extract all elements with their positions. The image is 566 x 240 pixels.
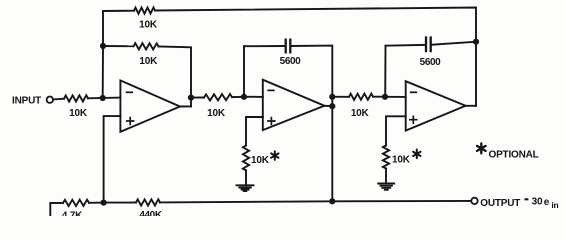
resistor 10K (U1 output to U2) bbox=[204, 94, 232, 101]
U1 minus marker bbox=[127, 91, 133, 93]
wire: capacitor C1 right lead down to U2 output and bottom rail bbox=[291, 46, 332, 202]
wire: U2 inverting node up to capacitor bbox=[243, 46, 245, 97]
junction: U1 output node bbox=[188, 95, 194, 101]
wire: U1 output row left stub bbox=[191, 97, 204, 99]
wire: bottom divider left leg (to supply, clipped) bbox=[50, 203, 63, 216]
wire: U3 inverting node up to capacitor bbox=[384, 46, 386, 97]
wire: node to U2 inverting input bbox=[244, 96, 263, 98]
svg-text:440K: 440K bbox=[139, 210, 162, 216]
capacitor C2 5600 plates bbox=[426, 38, 431, 52]
op-amp U2 bbox=[263, 80, 325, 130]
wire: top feedback rail left segment bbox=[103, 11, 134, 46]
wire: U1 feedback left stub bbox=[103, 45, 134, 47]
svg-text:e: e bbox=[544, 197, 550, 208]
junction: U2 output / tip bbox=[329, 103, 335, 109]
wire: U3 plus input to optional resistor bbox=[386, 116, 406, 145]
junction: node A summing input bbox=[100, 95, 106, 101]
wire: output junction to output terminal bbox=[332, 200, 471, 202]
wire: 4.7K to divider tap bbox=[89, 202, 104, 204]
junction: divider tap on bottom rail bbox=[101, 200, 107, 206]
junction: C2 right / feedback vertical bbox=[473, 39, 479, 45]
resistor 10K (U1 feedback) bbox=[134, 43, 159, 49]
wire: input resistor to U1 inverting input bbox=[88, 97, 120, 100]
svg-text:10K: 10K bbox=[251, 155, 270, 166]
label: *OPTIONAL note bbox=[477, 143, 486, 153]
wire: U2 plus input to optional resistor bbox=[246, 117, 263, 145]
wire: node A vertical (summing node to rails) bbox=[102, 46, 104, 98]
ground (U2 plus) bbox=[237, 185, 254, 191]
svg-text:INPUT: INPUT bbox=[12, 96, 41, 107]
U2 plus marker bbox=[268, 118, 275, 125]
wire: U3 output to feedback vertical bbox=[466, 105, 476, 107]
svg-text:10K: 10K bbox=[139, 20, 158, 31]
wire: capacitor C1 left lead bbox=[244, 45, 285, 47]
U3 minus marker bbox=[411, 91, 417, 93]
junction: U2 output / row2 bbox=[329, 94, 335, 100]
wire: capacitor C2 left lead bbox=[386, 44, 425, 47]
resistor 10K* (U2 plus to ground) bbox=[243, 145, 249, 170]
capacitor C1 5600 plates bbox=[286, 40, 291, 53]
svg-text:30: 30 bbox=[532, 196, 543, 207]
input terminal circle bbox=[47, 97, 53, 103]
wire: U1 plus input to bottom divider tap bbox=[104, 116, 121, 203]
junction: U2 inverting node bbox=[241, 94, 247, 100]
svg-text:OPTIONAL: OPTIONAL bbox=[489, 149, 539, 160]
svg-text:10K: 10K bbox=[351, 108, 370, 119]
svg-text:4.7K: 4.7K bbox=[62, 211, 83, 216]
svg-text:in: in bbox=[551, 200, 558, 210]
wire: divider tap to 440K bbox=[104, 202, 136, 204]
resistor 10K (U2 output to U3) bbox=[349, 94, 373, 100]
wire: resistor to ground bbox=[385, 169, 387, 184]
wire: node to U3 inverting input bbox=[385, 96, 406, 98]
wire: U2 output to vertical bbox=[324, 105, 332, 107]
wire: U1 output to junction bbox=[180, 105, 191, 107]
wire: capacitor C2 right lead to U3 output vertical bbox=[432, 42, 476, 45]
output terminal circle bbox=[471, 198, 477, 204]
junction: node A / U1 feedback tap bbox=[100, 43, 106, 49]
op-amp U1 bbox=[120, 80, 180, 131]
svg-text:5600: 5600 bbox=[280, 56, 301, 67]
wire: U2 output row stub bbox=[332, 96, 349, 98]
svg-text:10K: 10K bbox=[69, 108, 88, 119]
svg-text:5600: 5600 bbox=[420, 57, 441, 68]
wire: resistor to U2 inverting node bbox=[232, 96, 244, 98]
resistor 10K (input) bbox=[64, 95, 88, 101]
wire: 440K to output junction bbox=[160, 201, 332, 202]
U1 plus marker bbox=[127, 118, 134, 125]
ground (U3 plus) bbox=[378, 184, 394, 190]
wire: resistor to U3 inverting node bbox=[373, 96, 385, 98]
wire: U1 feedback right segment down to U1 output bbox=[159, 47, 192, 107]
junction: U3 inverting node bbox=[382, 94, 388, 100]
op-amp U3 bbox=[406, 81, 466, 130]
resistor 440K bbox=[136, 199, 160, 205]
U2 minus marker bbox=[268, 89, 274, 91]
U3 plus marker bbox=[410, 116, 417, 123]
junction: U2 output on bottom rail bbox=[329, 198, 335, 204]
resistor 4.7K bbox=[63, 200, 89, 206]
wire: resistor to ground bbox=[245, 170, 247, 185]
svg-text:10K: 10K bbox=[139, 56, 158, 67]
wire: input terminal to resistor bbox=[53, 98, 64, 101]
resistor 10K* (U3 plus to ground) bbox=[383, 145, 389, 168]
resistor 10K (overall feedback, top) bbox=[134, 7, 155, 13]
svg-text:OUTPUT: OUTPUT bbox=[480, 198, 520, 209]
svg-text:10K: 10K bbox=[207, 108, 226, 119]
wire: top feedback rail right segment down to op-amp U3 output bbox=[155, 8, 476, 106]
svg-text:10K: 10K bbox=[392, 155, 411, 166]
